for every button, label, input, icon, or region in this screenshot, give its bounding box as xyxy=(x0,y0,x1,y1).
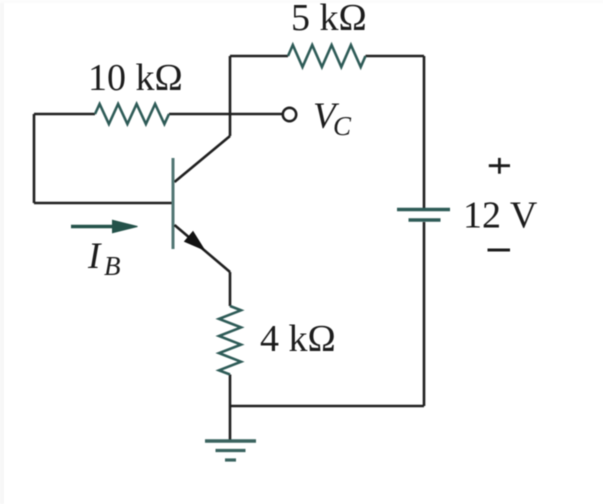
wire: 5k right lead xyxy=(366,55,425,58)
battery V1 short plate xyxy=(409,218,441,222)
wire: left vertical xyxy=(33,114,36,203)
node VC open terminal circle xyxy=(283,108,296,121)
battery minus sign xyxy=(488,249,511,252)
wire: 10k left lead xyxy=(34,113,95,116)
ground symbol xyxy=(205,441,256,460)
svg-text:4 kΩ: 4 kΩ xyxy=(260,318,336,360)
resistor R1 10 kOhm zigzag xyxy=(95,104,169,124)
svg-text:10 kΩ: 10 kΩ xyxy=(88,57,183,99)
wire: right vertical upper xyxy=(423,56,426,208)
wire: right vertical lower xyxy=(423,222,426,406)
current arrow IB xyxy=(71,220,138,232)
wire: emitter vertical xyxy=(229,272,232,306)
svg-text:B: B xyxy=(104,251,121,281)
wire: base wire xyxy=(34,202,172,205)
left edge shading xyxy=(0,0,4,504)
svg-text:12 V: 12 V xyxy=(463,195,538,237)
transistor Q1 emitter arrow xyxy=(185,232,205,250)
resistor R2 5 kOhm zigzag xyxy=(288,45,366,67)
svg-text:I: I xyxy=(87,236,102,277)
transistor Q1 collector lead xyxy=(175,136,231,182)
wire: 10k right lead to VC node xyxy=(169,113,282,116)
wire: 5k left lead xyxy=(230,55,288,58)
battery V1 long plate xyxy=(397,208,450,212)
wire: collector node vertical xyxy=(229,56,232,136)
resistor R3 4 kOhm zigzag xyxy=(219,306,241,375)
transistor Q1 emitter lead xyxy=(175,225,231,272)
svg-text:5 kΩ: 5 kΩ xyxy=(291,0,367,39)
wire: 4k bottom lead to ground xyxy=(229,375,232,442)
transistor Q1 base bar xyxy=(172,158,175,249)
svg-text:C: C xyxy=(333,111,352,141)
battery plus sign xyxy=(489,158,510,174)
wire: bottom horizontal xyxy=(230,405,424,408)
